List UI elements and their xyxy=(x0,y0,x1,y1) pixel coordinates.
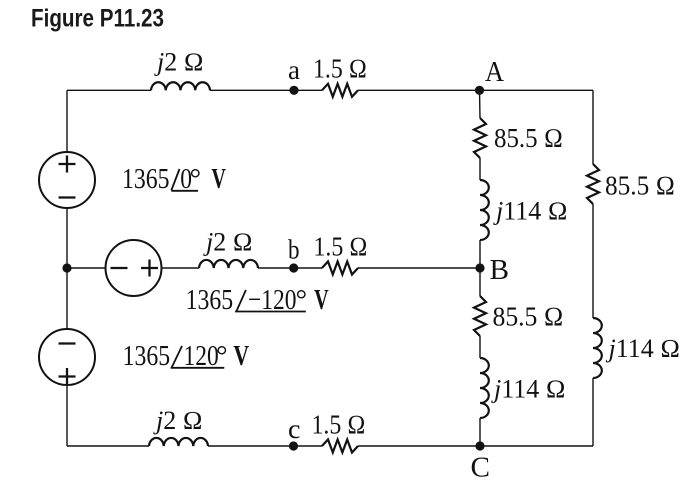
svg-text:85.5 Ω: 85.5 Ω xyxy=(605,171,675,201)
resistor 85.5 phase A xyxy=(474,118,486,158)
svg-text:b: b xyxy=(288,234,300,264)
wire left rail lower segment xyxy=(66,268,68,329)
node c xyxy=(289,441,298,450)
label 1365/-120 V value xyxy=(186,283,329,316)
node A xyxy=(475,86,484,95)
wire right rail top xyxy=(592,90,594,164)
svg-text:1.5 Ω: 1.5 Ω xyxy=(312,410,366,440)
svg-text:j2 Ω: j2 Ω xyxy=(154,48,204,77)
wire middle row right xyxy=(358,267,480,269)
svg-text:c: c xyxy=(288,414,301,444)
wire center column coil to B xyxy=(479,240,481,268)
wire left rail top segment xyxy=(66,90,68,152)
wire right rail middle xyxy=(592,204,594,318)
source V2 1365/-120V xyxy=(106,240,162,296)
resistor 1.5 top xyxy=(322,84,358,97)
wire bottom row right xyxy=(358,445,593,447)
inductor j114 right branch xyxy=(593,318,602,378)
wire left rail middle segment xyxy=(66,208,68,268)
svg-text:j114 Ω: j114 Ω xyxy=(491,375,566,404)
node a xyxy=(289,86,298,95)
resistor 1.5 bottom xyxy=(322,440,358,453)
svg-text:120: 120 xyxy=(184,339,219,372)
svg-text:85.5 Ω: 85.5 Ω xyxy=(493,302,564,332)
resistor 1.5 middle xyxy=(322,262,358,275)
wire top row middle xyxy=(210,89,322,91)
svg-text:V: V xyxy=(233,342,249,372)
inductor j2 bottom xyxy=(149,438,208,446)
V2 plus sign xyxy=(141,260,158,277)
inductor j114 phase B xyxy=(480,358,489,418)
svg-text:C: C xyxy=(471,451,491,483)
source V1 1365/0V xyxy=(39,152,95,208)
inductor j2 middle xyxy=(199,260,258,268)
svg-text:1365: 1365 xyxy=(123,339,171,372)
resistor 85.5 phase B xyxy=(474,296,486,336)
svg-text:j2 Ω: j2 Ω xyxy=(203,228,253,257)
node B xyxy=(475,263,484,272)
svg-text:1365: 1365 xyxy=(186,283,234,316)
wire top row left xyxy=(67,89,151,91)
svg-text:j114 Ω: j114 Ω xyxy=(493,196,568,225)
svg-text:V: V xyxy=(314,285,329,316)
wire middle row stub xyxy=(67,267,106,269)
wire top row right xyxy=(358,89,593,91)
wire center column coil to C xyxy=(479,418,481,446)
inductor j2 top xyxy=(151,82,210,90)
V3 plus sign xyxy=(59,368,76,385)
wire center column B to resistor xyxy=(479,268,481,296)
svg-text:a: a xyxy=(288,55,300,85)
wire bottom row left xyxy=(67,445,149,447)
node C xyxy=(475,441,484,450)
svg-text:1.5 Ω: 1.5 Ω xyxy=(313,54,367,84)
svg-text:A: A xyxy=(485,57,505,88)
svg-text:B: B xyxy=(490,255,510,286)
wire center column resistor to coil xyxy=(479,336,481,358)
wire bottom row center xyxy=(208,445,322,447)
svg-text:j114 Ω: j114 Ω xyxy=(606,334,681,363)
wire middle row center xyxy=(258,267,322,269)
label 1365/0 V value xyxy=(122,162,226,195)
svg-text:j2 Ω: j2 Ω xyxy=(153,406,203,435)
wire center column to coil xyxy=(479,158,481,180)
node junction left xyxy=(62,263,71,272)
svg-text:85.5 Ω: 85.5 Ω xyxy=(494,123,563,153)
V3 minus sign xyxy=(59,342,76,344)
svg-text:Figure P11.23: Figure P11.23 xyxy=(31,5,164,33)
node b xyxy=(289,263,298,272)
svg-text:1365: 1365 xyxy=(122,162,170,195)
wire middle row left xyxy=(162,267,200,269)
wire right rail bottom xyxy=(592,378,594,446)
svg-text:V: V xyxy=(211,164,226,195)
source V3 1365/120V xyxy=(39,329,95,385)
label 1365/120 V value xyxy=(123,339,250,372)
inductor j114 phase A xyxy=(480,180,489,240)
V2 minus sign xyxy=(111,267,128,269)
wire center column A to resistor xyxy=(479,90,482,118)
svg-text:1.5 Ω: 1.5 Ω xyxy=(314,232,368,262)
V1 plus sign xyxy=(59,156,76,173)
resistor 85.5 right branch xyxy=(587,164,599,204)
V1 minus sign xyxy=(59,196,76,198)
wire left rail bottom segment xyxy=(66,385,68,446)
